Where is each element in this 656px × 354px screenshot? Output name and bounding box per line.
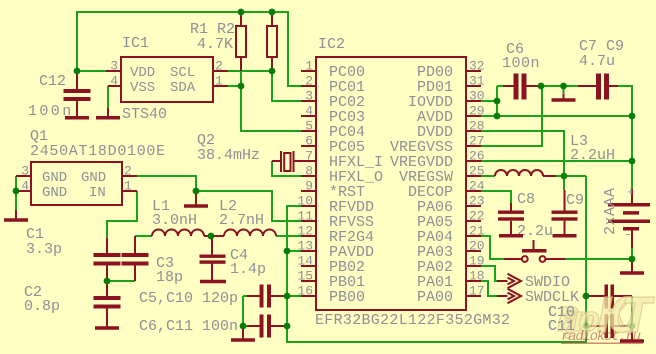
svg-text:9: 9 xyxy=(305,179,313,194)
pin 9 IC2 *RST xyxy=(301,179,365,202)
svg-text:15: 15 xyxy=(297,269,313,284)
junction node C1 C2 C3 xyxy=(104,278,111,285)
pin 3 IC2 PC02 xyxy=(301,89,365,112)
junction node C6 gnd xyxy=(538,83,545,90)
wire VREGVDD to battery rail xyxy=(481,160,632,162)
resistor R2 xyxy=(267,12,277,71)
ground mid top xyxy=(552,94,576,100)
junction node VREGVDD batt xyxy=(629,158,636,165)
junction node SCL R2 xyxy=(269,68,276,75)
wire ground stem at 563 xyxy=(563,86,565,94)
svg-text:VSS: VSS xyxy=(130,80,155,96)
svg-text:10: 10 xyxy=(297,194,313,209)
svg-text:PB00: PB00 xyxy=(329,289,365,306)
junction node VDD R2 top xyxy=(269,9,276,16)
wire C9 top xyxy=(563,176,565,190)
svg-text:1.4p: 1.4p xyxy=(230,261,266,278)
wire Q1 pins 3,4 to ground xyxy=(15,176,17,210)
pin 3 Q1 xyxy=(16,164,31,179)
svg-text:SDA: SDA xyxy=(170,80,196,96)
capacitor C4 1.4p xyxy=(200,236,267,280)
wire VDD vertical rail x287 RFVDD PAVDD PB00 xyxy=(287,176,586,342)
svg-text:32: 32 xyxy=(469,59,485,74)
watermark radiokot logo xyxy=(557,288,655,348)
junction node C6 vdd xyxy=(284,323,291,330)
svg-text:4.7u: 4.7u xyxy=(579,53,615,70)
junction node Q1 gnd left xyxy=(13,188,20,195)
svg-text:2.7nH: 2.7nH xyxy=(219,212,264,229)
capacitor C7 C9 4.7u xyxy=(578,38,624,100)
svg-text:14: 14 xyxy=(297,254,313,269)
junction node C10 C11 gnd xyxy=(629,323,636,330)
svg-text:IC2: IC2 xyxy=(318,36,345,53)
pin 27 IC2 VREGVSS xyxy=(390,134,485,157)
pin 17 IC2 PA00 xyxy=(417,284,485,307)
capacitor C6 100n top xyxy=(502,41,541,100)
svg-text:21: 21 xyxy=(469,224,485,239)
svg-text:16: 16 xyxy=(297,284,313,299)
pin 13 IC2 PAVDD xyxy=(297,239,374,262)
wire C1 bottom to C3 bottom xyxy=(107,280,135,282)
wire crystal to IC2.8 HFXL_O xyxy=(272,161,302,176)
pin 16 IC2 PB00 xyxy=(297,284,365,307)
svg-text:29: 29 xyxy=(469,104,485,119)
capacitor C3 18p xyxy=(122,236,184,286)
svg-text:19: 19 xyxy=(469,254,485,269)
pin 25 IC2 VREGSW xyxy=(399,164,485,187)
svg-text:24: 24 xyxy=(469,179,485,194)
junction node L3 DVDD C9 xyxy=(561,173,568,180)
wire button to battery minus xyxy=(545,248,632,259)
pin 29 IC2 AVDD xyxy=(417,104,485,127)
junction node AVDD xyxy=(494,113,501,120)
junction node PB00 C5 xyxy=(284,293,291,300)
junction node PAVDD xyxy=(284,248,291,255)
pin 28 IC2 DVDD xyxy=(417,119,485,142)
capacitor C5 120p xyxy=(247,285,287,308)
junction node VDD R1 top xyxy=(238,9,245,16)
svg-text:C6,C11 100n: C6,C11 100n xyxy=(139,318,238,335)
svg-text:2.2uH: 2.2uH xyxy=(570,147,615,164)
wire C3 top to L1 xyxy=(135,235,152,237)
pin 3 IC1 xyxy=(106,59,121,74)
wire VREGSW to L3 xyxy=(481,175,495,177)
pin 5 IC2 PC04 xyxy=(301,119,365,142)
pin 21 IC2 PA04 xyxy=(417,224,485,247)
svg-text:-: - xyxy=(624,227,632,242)
svg-text:6: 6 xyxy=(305,134,313,149)
svg-text:5: 5 xyxy=(305,119,313,134)
svg-text:1: 1 xyxy=(124,179,132,194)
ground for C12 xyxy=(65,108,89,118)
wire L3 out node xyxy=(556,175,586,177)
wire VDD to IC1 pin3 xyxy=(77,70,106,72)
antenna Q1 2450AT18D0100E xyxy=(30,128,166,205)
junction node IOVDD xyxy=(494,98,501,105)
ground C9 xyxy=(553,234,577,238)
svg-text:PA00: PA00 xyxy=(417,289,453,306)
svg-text:25: 25 xyxy=(469,164,485,179)
wire IOVDD AVDD to C6 xyxy=(481,86,632,116)
SWDCLK arrow xyxy=(497,289,579,306)
op-amp IC1 STS40 sensor xyxy=(121,35,213,123)
ground C2 xyxy=(95,326,119,330)
ground C10 C11 xyxy=(620,326,644,341)
svg-text:C12: C12 xyxy=(39,73,66,90)
wire Q1 IN to C1 xyxy=(107,191,137,238)
pin 23 IC2 PA06 xyxy=(417,194,485,217)
pin 1 IC2 PC00 xyxy=(301,59,365,82)
pin 12 IC2 RF2G4 xyxy=(297,224,374,247)
svg-text:100n: 100n xyxy=(502,55,540,72)
svg-text:26: 26 xyxy=(469,149,485,164)
svg-text:+: + xyxy=(627,185,635,200)
svg-text:12: 12 xyxy=(297,224,313,239)
label R1 R2 4.7K xyxy=(190,21,235,53)
pin 18 IC2 PA01 xyxy=(417,269,485,292)
svg-text:2: 2 xyxy=(305,74,313,89)
svg-text:20: 20 xyxy=(469,239,485,254)
wire IC1 VSS to ground xyxy=(107,86,109,108)
wire VREGVSS to ground rail xyxy=(481,86,542,146)
svg-text:13: 13 xyxy=(297,239,313,254)
wire PA02 to SWDIO arrow xyxy=(481,266,497,281)
wire PA01 to SWDCLK arrow xyxy=(481,281,497,296)
pin 20 IC2 PA03 xyxy=(417,239,485,262)
svg-text:C11: C11 xyxy=(548,318,575,335)
svg-text:2xAAA: 2xAAA xyxy=(602,187,619,235)
svg-text:11: 11 xyxy=(297,209,313,224)
inductor L3 2.2uH xyxy=(495,133,615,176)
pin 4 Q1 xyxy=(16,179,31,194)
ground C8 xyxy=(499,234,523,238)
pin 2 Q1 xyxy=(122,164,137,179)
svg-text:4: 4 xyxy=(110,74,118,89)
pin 6 IC2 PC05 xyxy=(301,134,365,157)
pin 31 IC2 PD01 xyxy=(417,74,485,97)
junction node gnd tap xyxy=(560,83,567,90)
svg-text:C9: C9 xyxy=(566,192,584,209)
wire PA04 to button xyxy=(481,236,504,259)
pin 14 IC2 PB02 xyxy=(297,254,365,277)
inductor L2 2.7nH xyxy=(219,198,276,236)
pin 1 IC1 xyxy=(213,74,228,89)
capacitor C8 2.2u xyxy=(498,191,553,240)
svg-text:17: 17 xyxy=(469,284,485,299)
wire C10 C11 right plates xyxy=(631,296,633,326)
pin 7 IC2 HFXL_I xyxy=(301,149,383,172)
svg-text:IN: IN xyxy=(89,185,106,201)
svg-text:23: 23 xyxy=(469,194,485,209)
wire SDA net IC1.1 to R1 to IC2.5 xyxy=(228,71,302,131)
wire DVDD to L3 output node xyxy=(481,131,564,176)
capacitor C10 xyxy=(548,285,632,322)
svg-text:0.8p: 0.8p xyxy=(24,298,60,315)
junction node C12 VDD xyxy=(74,68,81,75)
crystal Q2 38.4mHz xyxy=(197,132,302,172)
svg-text:4.7K: 4.7K xyxy=(197,36,233,53)
pin 24 IC2 DECOP xyxy=(408,179,485,202)
svg-text:4: 4 xyxy=(305,104,313,119)
pin 4 IC2 PC03 xyxy=(301,104,365,127)
svg-text:2: 2 xyxy=(124,164,132,179)
pin 10 IC2 RFVDD xyxy=(297,194,374,217)
svg-text:18: 18 xyxy=(469,269,485,284)
ground Q1 left xyxy=(4,210,28,220)
junction node C5 C6 gnd xyxy=(240,323,247,330)
wire SCL net IC1.2 to R2 to IC2.3 xyxy=(228,71,302,101)
svg-text:3: 3 xyxy=(21,164,29,179)
SWDIO arrow xyxy=(497,274,570,291)
junction node AVDD batt xyxy=(629,113,636,120)
push button S1 xyxy=(504,240,565,262)
svg-text:1: 1 xyxy=(305,59,313,74)
capacitor C6 100n shunt xyxy=(247,315,287,338)
junction node C11 vdd xyxy=(583,323,590,330)
capacitor C9 mid xyxy=(552,190,585,234)
ground C5 C6 xyxy=(231,326,255,340)
junction node C10 vdd xyxy=(583,293,590,300)
svg-text:3: 3 xyxy=(305,89,313,104)
pin 11 IC2 RFVSS xyxy=(297,209,374,232)
capacitor C12 xyxy=(28,71,91,120)
pin 2 IC2 PC01 xyxy=(301,74,365,97)
svg-text:8: 8 xyxy=(305,164,313,179)
watermark radiokot.ru text xyxy=(561,329,643,345)
svg-text:C5,C10 120p: C5,C10 120p xyxy=(139,290,238,307)
svg-text:C8: C8 xyxy=(517,191,535,208)
junction node SDA R1 xyxy=(238,83,245,90)
svg-text:3: 3 xyxy=(110,59,118,74)
svg-text:EFR32BG22L122F352GM32: EFR32BG22L122F352GM32 xyxy=(315,312,510,329)
svg-text:STS40: STS40 xyxy=(122,106,167,123)
svg-text:GND: GND xyxy=(42,185,67,201)
wire Q1 pin2 GND net to IC2.11 RFVSS xyxy=(137,176,302,221)
op-amp IC2 EFR32BG22 xyxy=(315,36,510,329)
capacitor C2 0.8p xyxy=(24,281,121,327)
svg-text:28: 28 xyxy=(469,119,485,134)
ground C4 xyxy=(200,280,226,284)
svg-text:GND: GND xyxy=(42,170,67,186)
svg-text:27: 27 xyxy=(469,134,485,149)
pin 1 Q1 xyxy=(122,179,137,194)
svg-text:31: 31 xyxy=(469,74,485,89)
svg-text:4: 4 xyxy=(21,179,29,194)
capacitor C11 xyxy=(548,314,632,338)
wire C7 right to battery rail xyxy=(618,86,632,189)
junction node button batt minus xyxy=(629,256,636,263)
svg-text:7: 7 xyxy=(305,149,313,164)
svg-text:18p: 18p xyxy=(156,269,183,286)
svg-text:3.3p: 3.3p xyxy=(26,241,62,258)
wire PB00 branch xyxy=(287,295,302,297)
svg-text:38.4mHz: 38.4mHz xyxy=(197,147,260,164)
pin 15 IC2 PB01 xyxy=(297,269,365,292)
inductor L1 3.0nH xyxy=(152,198,204,236)
pin 32 IC2 PD00 xyxy=(417,59,485,82)
capacitor C1 3.3p xyxy=(26,226,121,281)
wire PAVDD branch xyxy=(287,250,302,252)
wire DECOP to C8 xyxy=(481,191,511,203)
svg-text:SCL: SCL xyxy=(170,65,195,81)
wire VDD top rail xyxy=(77,12,302,86)
wire C6 right to ground tap to C7 xyxy=(541,85,578,87)
svg-text:2450AT18D0100E: 2450AT18D0100E xyxy=(30,143,166,160)
svg-text:IC1: IC1 xyxy=(122,35,149,52)
svg-text:2: 2 xyxy=(215,59,223,74)
wire L2 to IC2.12 RF2G4 xyxy=(276,235,302,237)
ground Q1 pin2 xyxy=(184,191,208,206)
wire between L1 and L2 xyxy=(204,235,224,237)
junction node Q1 gnd right xyxy=(193,188,200,195)
svg-text:3.0nH: 3.0nH xyxy=(152,212,197,229)
svg-text:VDD: VDD xyxy=(130,65,155,81)
svg-text:22: 22 xyxy=(469,209,485,224)
svg-text:1: 1 xyxy=(215,74,223,89)
battery 2xAAA xyxy=(602,185,650,248)
resistor R1 xyxy=(236,12,246,71)
pin 30 IC2 IOVDD xyxy=(408,89,485,112)
pin 8 IC2 HFXL_O xyxy=(301,164,383,187)
junction node RF filter xyxy=(208,233,215,240)
pin 26 IC2 VREGVDD xyxy=(390,149,485,172)
pin 19 IC2 PA02 xyxy=(417,254,485,277)
pin 22 IC2 PA05 xyxy=(417,209,485,232)
svg-text:GND: GND xyxy=(81,170,106,186)
pin 2 IC1 xyxy=(213,59,228,74)
wire C5 C6 left plates to ground xyxy=(243,296,247,326)
svg-text:30: 30 xyxy=(469,89,485,104)
ground for IC1 VSS xyxy=(96,108,120,118)
ground battery xyxy=(620,259,644,273)
pin 4 IC1 xyxy=(108,74,121,89)
